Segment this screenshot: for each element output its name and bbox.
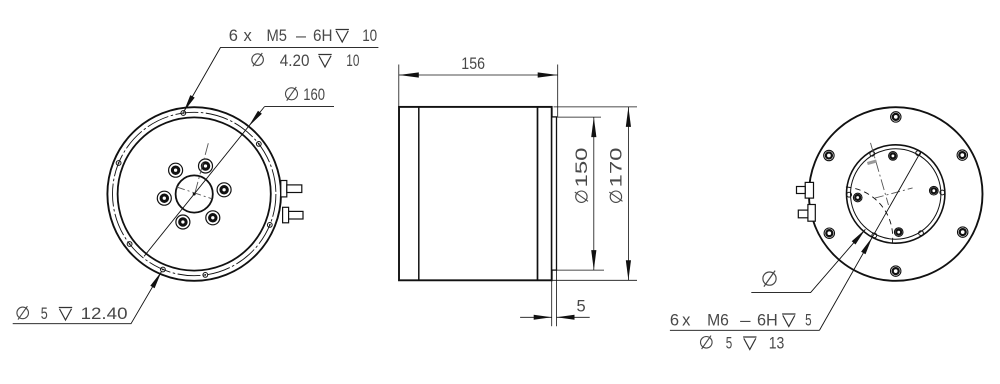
right view connector pin 2 xyxy=(808,205,815,222)
left view outer circle D170 xyxy=(107,107,281,281)
svg-text:5: 5 xyxy=(41,305,48,323)
right view 6x M6 holes on boss xyxy=(940,190,945,195)
D160 leader underline and arrow xyxy=(265,106,335,108)
right view centreline shallow xyxy=(875,188,913,198)
left view 6x M5 rim holes + D5 dowel hole xyxy=(256,142,261,147)
svg-text:156: 156 xyxy=(461,55,485,73)
svg-text:M5: M5 xyxy=(267,27,288,45)
D5 depth 12.40 leader and arrow xyxy=(13,272,162,324)
body outline xyxy=(399,107,552,280)
svg-text:170: 170 xyxy=(608,148,626,188)
front flange joint line xyxy=(418,107,420,280)
svg-text:x: x xyxy=(682,312,691,330)
left view centreline steep xyxy=(195,142,209,194)
svg-text:4.20: 4.20 xyxy=(280,52,310,70)
right view 6 outer screw holes xyxy=(957,150,967,160)
dim 5 extension lines xyxy=(551,281,553,327)
left view inner circle D150 xyxy=(118,117,271,270)
dim D170 dimension line xyxy=(627,107,629,280)
svg-text:150: 150 xyxy=(573,148,591,188)
svg-text:6: 6 xyxy=(670,312,679,330)
left view 6 bolt holes on D60 xyxy=(217,183,231,197)
svg-text:160: 160 xyxy=(303,86,325,104)
dim D170 extension lines xyxy=(554,106,638,108)
svg-text:–: – xyxy=(296,27,307,45)
rear spigot D150 xyxy=(552,117,557,270)
svg-text:x: x xyxy=(244,27,253,45)
svg-text:5: 5 xyxy=(577,298,586,316)
label D160 xyxy=(286,88,298,100)
left view centre bore xyxy=(176,175,213,212)
right view centreline steep xyxy=(871,143,889,205)
dim 5 dimension lines and arrows xyxy=(520,316,552,318)
svg-text:12.40: 12.40 xyxy=(81,305,128,323)
dim D170 text xyxy=(608,148,626,203)
right view hidden circle arc (dashed) xyxy=(846,187,893,244)
dim 156 dimension line xyxy=(399,74,558,76)
svg-text:6H: 6H xyxy=(313,27,333,45)
right view 4 screws inside boss xyxy=(930,186,939,195)
svg-text:6: 6 xyxy=(229,27,238,45)
boss diameter leader (D label) xyxy=(751,229,865,292)
svg-text:10: 10 xyxy=(362,27,377,45)
dim D150 extension lines xyxy=(557,116,602,118)
right view outer circle D170 xyxy=(809,107,983,281)
right view connector pin 1 xyxy=(805,182,813,198)
dim D150 text xyxy=(573,148,591,203)
right view rear boss ring outer xyxy=(847,145,945,243)
dim 156 extension lines xyxy=(398,65,400,107)
M5 leader and arrow xyxy=(184,48,379,112)
label D5 depth 13 xyxy=(701,337,713,349)
label D5 depth 12.40 xyxy=(17,307,29,319)
label 6 x M6 - 6H depth 5 xyxy=(670,329,820,331)
right view grey key mark xyxy=(867,161,876,164)
svg-text:10: 10 xyxy=(346,52,359,70)
right view rear boss ring inner xyxy=(851,149,941,239)
svg-text:6H: 6H xyxy=(757,312,778,330)
M6 leader line through holes xyxy=(819,151,921,330)
svg-text:5: 5 xyxy=(805,312,812,330)
label D4.20 depth 10 xyxy=(252,54,264,66)
left view centreline shallow xyxy=(176,187,212,199)
left view connector pin 2 xyxy=(283,207,289,223)
D160 diameter line xyxy=(144,107,264,257)
svg-text:M6: M6 xyxy=(707,312,729,330)
svg-text:13: 13 xyxy=(769,335,785,353)
svg-text:–: – xyxy=(740,312,751,330)
dim D150 dimension line xyxy=(593,117,595,270)
left view: front face of servo housing xyxy=(107,107,281,281)
left view bolt circle D160 (dash-dot) xyxy=(113,112,276,275)
left view connector pin 1 xyxy=(281,181,287,197)
rear flange joint line xyxy=(537,107,539,280)
svg-text:5: 5 xyxy=(726,335,733,353)
